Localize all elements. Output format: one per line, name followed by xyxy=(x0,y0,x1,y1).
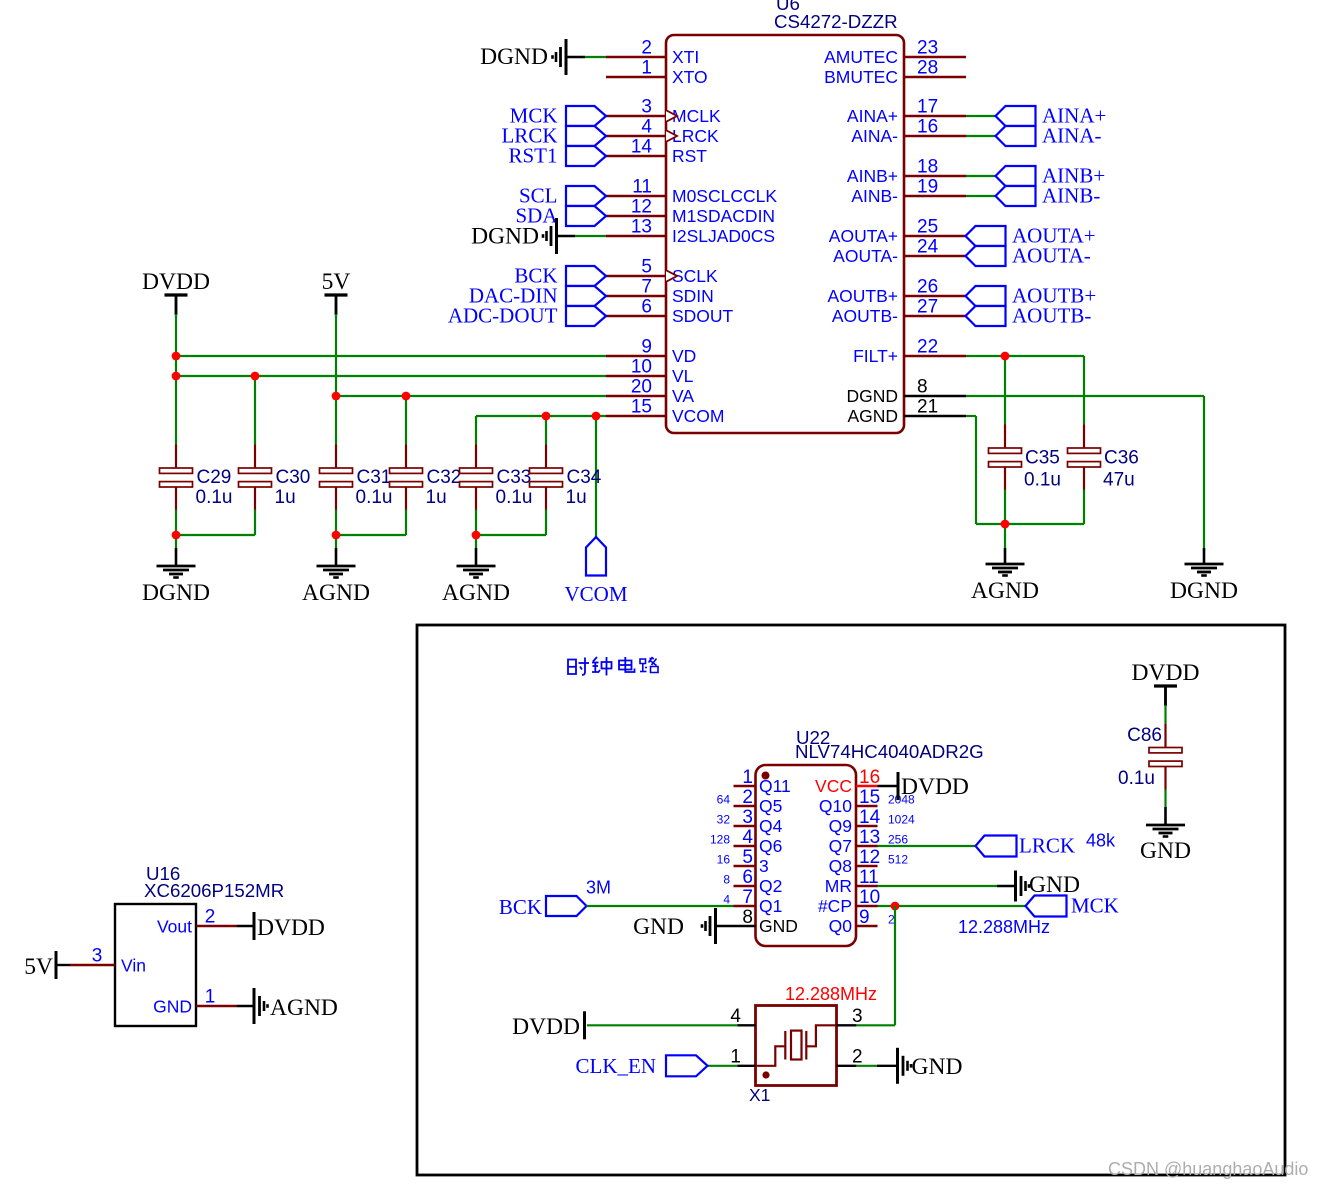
svg-text:25: 25 xyxy=(917,217,938,238)
svg-text:AGND: AGND xyxy=(847,406,898,426)
svg-text:2: 2 xyxy=(641,38,652,59)
svg-text:AGND: AGND xyxy=(442,580,510,606)
svg-text:#CP: #CP xyxy=(818,896,852,916)
svg-text:SDIN: SDIN xyxy=(672,286,714,306)
svg-text:Q7: Q7 xyxy=(829,836,852,856)
svg-text:DGND: DGND xyxy=(480,44,548,70)
svg-text:AGND: AGND xyxy=(302,580,370,606)
svg-text:MR: MR xyxy=(825,876,852,896)
svg-text:C32: C32 xyxy=(427,467,462,488)
svg-text:NLV74HC4040ADR2G: NLV74HC4040ADR2G xyxy=(795,741,984,762)
svg-text:SCLK: SCLK xyxy=(672,266,718,286)
svg-text:FILT+: FILT+ xyxy=(853,346,898,366)
svg-text:RST: RST xyxy=(672,146,707,166)
svg-text:16: 16 xyxy=(859,767,880,788)
svg-text:0.1u: 0.1u xyxy=(356,487,393,508)
svg-text:AOUTA+: AOUTA+ xyxy=(829,226,898,246)
svg-text:2: 2 xyxy=(852,1047,863,1068)
svg-text:XTI: XTI xyxy=(672,47,699,67)
svg-text:GND: GND xyxy=(1140,838,1191,864)
svg-text:VCOM: VCOM xyxy=(564,582,627,606)
svg-text:BMUTEC: BMUTEC xyxy=(824,67,898,87)
svg-text:3: 3 xyxy=(852,1006,863,1027)
svg-text:16: 16 xyxy=(917,117,938,138)
svg-text:4: 4 xyxy=(742,827,753,848)
svg-text:VCOM: VCOM xyxy=(672,406,725,426)
svg-text:32: 32 xyxy=(717,813,731,827)
svg-text:X1: X1 xyxy=(749,1085,770,1105)
svg-text:AINB-: AINB- xyxy=(1042,184,1100,208)
svg-text:6: 6 xyxy=(742,867,753,888)
svg-text:2: 2 xyxy=(742,787,753,808)
svg-text:4: 4 xyxy=(641,117,652,138)
svg-text:3: 3 xyxy=(742,807,753,828)
svg-text:AINA-: AINA- xyxy=(851,126,898,146)
svg-text:C30: C30 xyxy=(276,467,311,488)
svg-text:C35: C35 xyxy=(1025,448,1060,469)
svg-text:26: 26 xyxy=(917,277,938,298)
svg-text:19: 19 xyxy=(917,177,938,198)
svg-text:0.1u: 0.1u xyxy=(1024,470,1061,491)
svg-text:0.1u: 0.1u xyxy=(496,487,533,508)
svg-text:DGND: DGND xyxy=(846,386,898,406)
svg-text:11: 11 xyxy=(632,177,652,198)
svg-text:6: 6 xyxy=(641,297,652,318)
svg-text:RST1: RST1 xyxy=(508,144,557,168)
svg-text:128: 128 xyxy=(710,833,730,847)
svg-text:I2SLJAD0CS: I2SLJAD0CS xyxy=(672,226,775,246)
svg-text:BCK: BCK xyxy=(499,895,542,919)
svg-text:3: 3 xyxy=(641,97,652,118)
svg-text:AOUTA-: AOUTA- xyxy=(833,246,898,266)
svg-text:64: 64 xyxy=(717,793,731,807)
svg-text:4: 4 xyxy=(723,893,730,907)
svg-text:12.288MHz: 12.288MHz xyxy=(958,917,1050,937)
svg-text:1: 1 xyxy=(730,1047,741,1068)
svg-text:28: 28 xyxy=(917,58,938,79)
svg-text:M0SCLCCLK: M0SCLCCLK xyxy=(672,186,777,206)
svg-text:10: 10 xyxy=(859,887,880,908)
svg-text:23: 23 xyxy=(917,38,938,59)
svg-text:AMUTEC: AMUTEC xyxy=(824,47,898,67)
svg-text:1: 1 xyxy=(205,987,216,1008)
svg-text:9: 9 xyxy=(641,337,652,358)
svg-text:VD: VD xyxy=(672,346,696,366)
svg-text:GND: GND xyxy=(153,997,192,1017)
svg-text:20: 20 xyxy=(631,377,652,398)
svg-text:AINA-: AINA- xyxy=(1042,124,1101,148)
svg-text:5V: 5V xyxy=(24,954,53,980)
svg-text:CSDN @huanghaoAudio: CSDN @huanghaoAudio xyxy=(1108,1159,1308,1179)
svg-text:DGND: DGND xyxy=(142,580,210,606)
svg-text:C29: C29 xyxy=(197,467,232,488)
svg-text:VCC: VCC xyxy=(815,776,852,796)
svg-text:CS4272-DZZR: CS4272-DZZR xyxy=(774,11,898,32)
svg-text:3M: 3M xyxy=(586,878,611,898)
svg-text:C36: C36 xyxy=(1104,448,1139,469)
svg-text:Q9: Q9 xyxy=(829,816,852,836)
svg-text:AINA+: AINA+ xyxy=(847,106,898,126)
svg-text:14: 14 xyxy=(859,807,881,828)
svg-text:15: 15 xyxy=(859,787,880,808)
svg-text:48k: 48k xyxy=(1086,831,1116,851)
svg-text:17: 17 xyxy=(917,97,938,118)
svg-text:16: 16 xyxy=(717,853,731,867)
svg-text:47u: 47u xyxy=(1103,470,1135,491)
svg-text:DVDD: DVDD xyxy=(1132,660,1200,686)
svg-text:0.1u: 0.1u xyxy=(196,487,233,508)
svg-text:14: 14 xyxy=(631,137,653,158)
svg-text:C31: C31 xyxy=(357,467,392,488)
svg-text:5: 5 xyxy=(641,257,652,278)
svg-text:AOUTA-: AOUTA- xyxy=(1012,244,1091,268)
svg-text:AINB-: AINB- xyxy=(851,186,898,206)
svg-text:1: 1 xyxy=(742,767,753,788)
svg-text:MCK: MCK xyxy=(1071,894,1119,918)
svg-text:XTO: XTO xyxy=(672,67,708,87)
svg-text:XC6206P152MR: XC6206P152MR xyxy=(144,880,284,901)
svg-text:ADC-DOUT: ADC-DOUT xyxy=(448,304,558,328)
svg-text:Vout: Vout xyxy=(157,917,192,937)
svg-text:VA: VA xyxy=(672,386,694,406)
svg-text:8: 8 xyxy=(742,907,753,928)
svg-text:0.1u: 0.1u xyxy=(1118,768,1155,789)
svg-text:DVDD: DVDD xyxy=(142,269,210,295)
svg-text:DVDD: DVDD xyxy=(257,915,325,941)
svg-text:21: 21 xyxy=(917,397,938,418)
svg-text:10: 10 xyxy=(631,357,652,378)
svg-text:Q8: Q8 xyxy=(829,856,852,876)
svg-text:Q10: Q10 xyxy=(819,796,852,816)
svg-text:512: 512 xyxy=(888,853,908,867)
svg-text:Q11: Q11 xyxy=(759,776,791,796)
svg-text:18: 18 xyxy=(917,157,938,178)
svg-text:MCLK: MCLK xyxy=(672,106,721,126)
svg-text:GND: GND xyxy=(633,914,684,940)
svg-text:C34: C34 xyxy=(567,467,602,488)
svg-text:DVDD: DVDD xyxy=(512,1014,580,1040)
svg-text:DVDD: DVDD xyxy=(901,774,969,800)
svg-text:AOUTB-: AOUTB- xyxy=(1012,304,1091,328)
svg-text:Vin: Vin xyxy=(121,956,146,976)
svg-text:13: 13 xyxy=(859,827,880,848)
svg-text:3: 3 xyxy=(92,946,103,967)
svg-text:Q1: Q1 xyxy=(759,896,782,916)
svg-text:5: 5 xyxy=(742,847,753,868)
svg-text:LRCK: LRCK xyxy=(1019,834,1075,858)
svg-text:AGND: AGND xyxy=(270,995,338,1021)
svg-text:AOUTB-: AOUTB- xyxy=(832,306,898,326)
svg-text:27: 27 xyxy=(917,297,938,318)
svg-text:Q2: Q2 xyxy=(759,876,782,896)
svg-text:1u: 1u xyxy=(566,487,587,508)
svg-text:24: 24 xyxy=(917,237,939,258)
svg-text:DGND: DGND xyxy=(1170,578,1238,604)
svg-text:CLK_EN: CLK_EN xyxy=(576,1054,657,1078)
svg-text:1u: 1u xyxy=(426,487,447,508)
svg-text:Q4: Q4 xyxy=(759,816,783,836)
svg-text:DGND: DGND xyxy=(471,224,539,250)
svg-text:SDOUT: SDOUT xyxy=(672,306,734,326)
svg-text:AINB+: AINB+ xyxy=(847,166,898,186)
svg-text:1024: 1024 xyxy=(888,813,915,827)
svg-text:11: 11 xyxy=(859,867,879,888)
svg-text:7: 7 xyxy=(641,277,652,298)
svg-text:LRCK: LRCK xyxy=(672,126,719,146)
svg-text:2: 2 xyxy=(205,907,216,928)
svg-text:VL: VL xyxy=(672,366,694,386)
svg-text:Q0: Q0 xyxy=(829,916,853,936)
svg-text:7: 7 xyxy=(742,887,753,908)
svg-text:12: 12 xyxy=(631,197,652,218)
svg-text:1: 1 xyxy=(641,58,652,79)
svg-text:Q5: Q5 xyxy=(759,796,782,816)
svg-text:AOUTB+: AOUTB+ xyxy=(827,286,898,306)
svg-text:5V: 5V xyxy=(322,269,351,295)
svg-text:12: 12 xyxy=(859,847,880,868)
svg-text:C86: C86 xyxy=(1127,725,1162,746)
svg-text:C33: C33 xyxy=(497,467,532,488)
svg-text:256: 256 xyxy=(888,833,908,847)
svg-text:22: 22 xyxy=(917,337,938,358)
svg-text:8: 8 xyxy=(917,377,928,398)
svg-text:4: 4 xyxy=(730,1006,741,1027)
svg-text:AGND: AGND xyxy=(971,578,1039,604)
svg-text:8: 8 xyxy=(723,873,730,887)
svg-text:15: 15 xyxy=(631,397,652,418)
svg-text:13: 13 xyxy=(631,217,652,238)
svg-text:GND: GND xyxy=(912,1054,963,1080)
svg-text:M1SDACDIN: M1SDACDIN xyxy=(672,206,775,226)
svg-text:3: 3 xyxy=(759,856,769,876)
svg-text:12.288MHz: 12.288MHz xyxy=(785,984,877,1004)
svg-text:1u: 1u xyxy=(275,487,296,508)
svg-text:GND: GND xyxy=(759,916,798,936)
svg-text:9: 9 xyxy=(859,907,870,928)
svg-text:Q6: Q6 xyxy=(759,836,782,856)
